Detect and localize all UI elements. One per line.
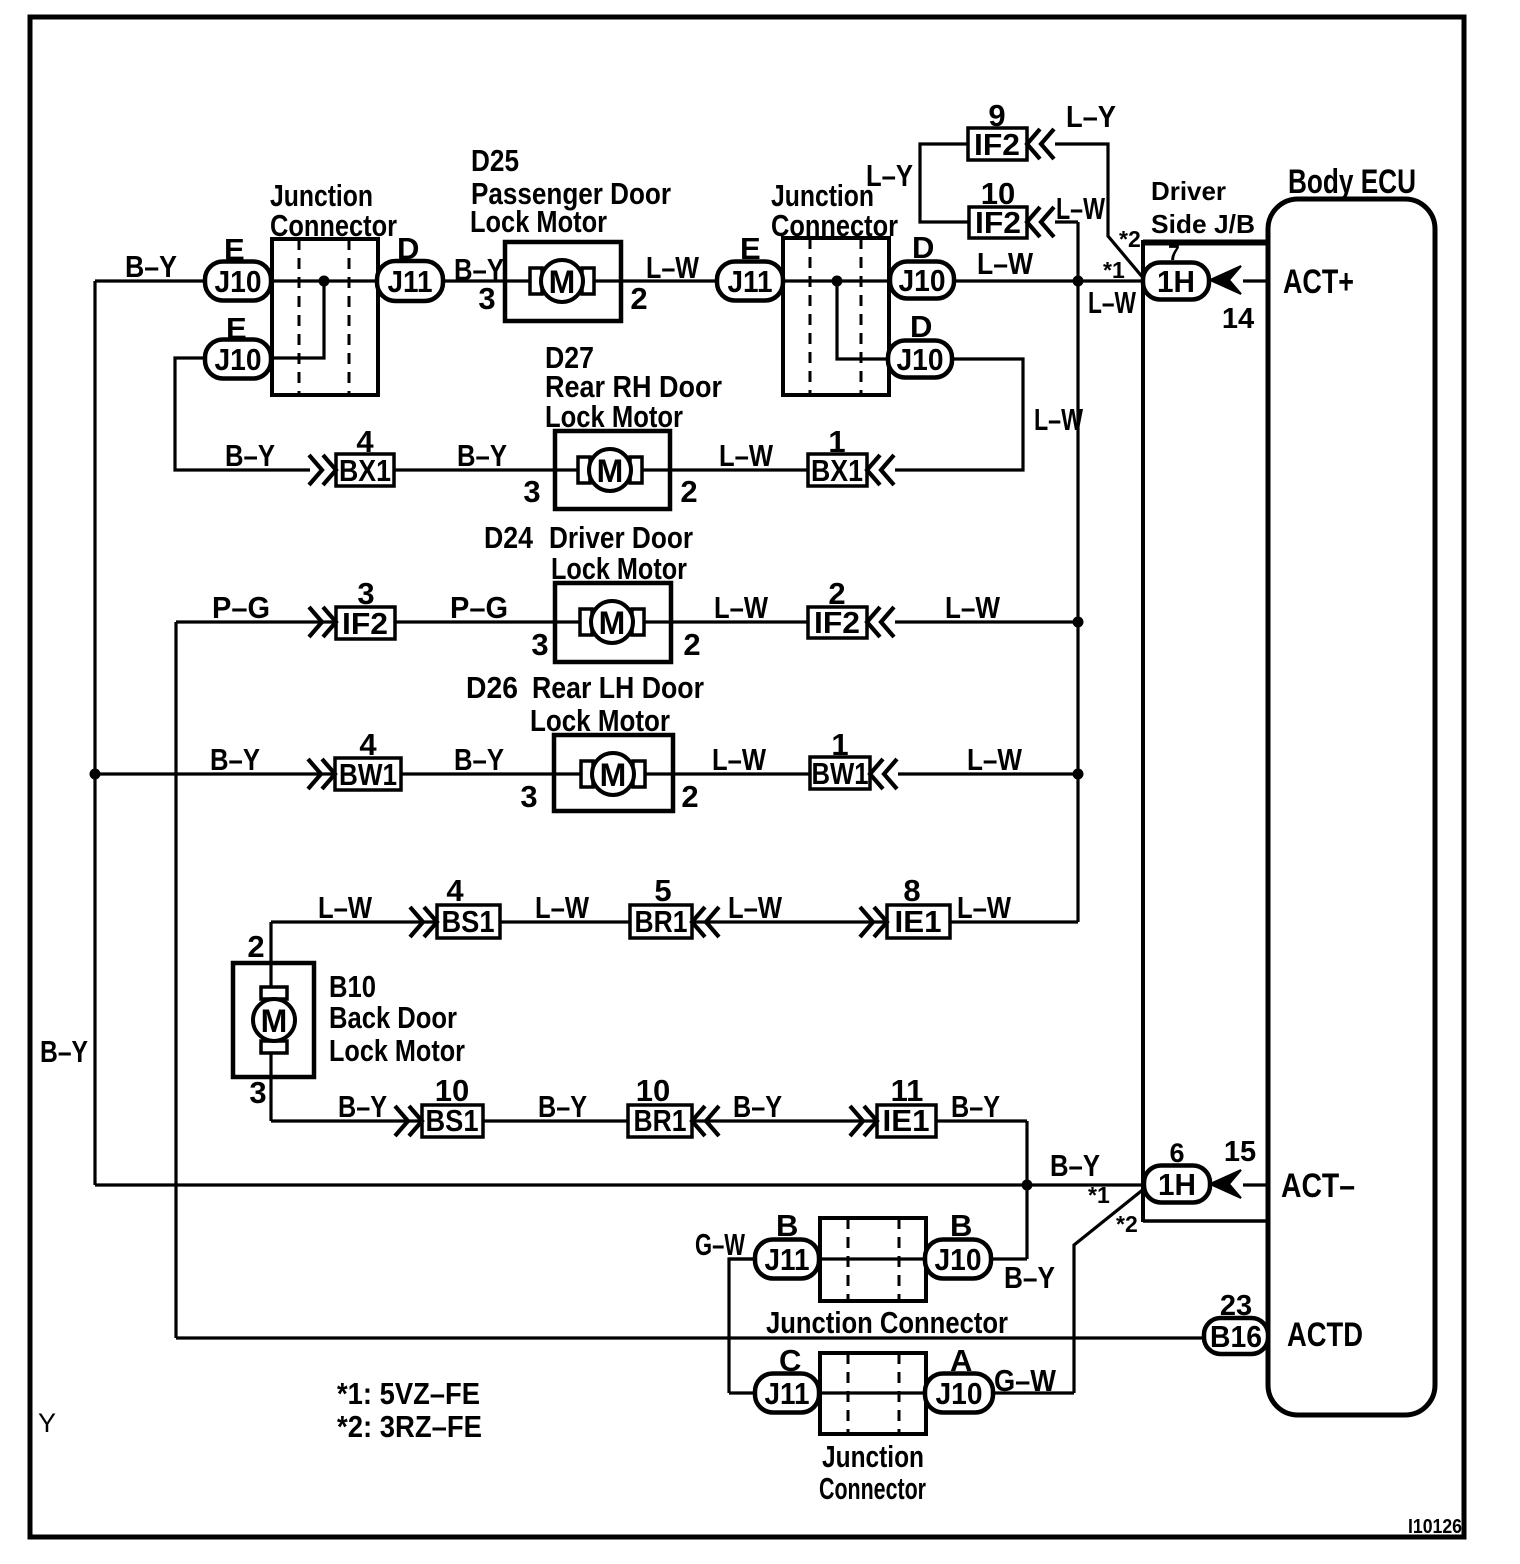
oval J11 pin B (755, 1240, 819, 1279)
wire L-W from IF2 pin2 to bus (895, 620, 1078, 623)
wire P-G row (driver door motor) (176, 620, 867, 623)
svg-text:L–W: L–W (945, 590, 1001, 625)
arrows into BS1 pin10 (395, 1106, 422, 1136)
Driver Side J/B box (1143, 242, 1267, 1222)
arrows into BX1 pin1 (867, 455, 894, 485)
wire B-Y row BW1 (rear LH door motor) (95, 772, 870, 775)
svg-text:B–Y: B–Y (457, 438, 507, 473)
oval J10 pin B (925, 1240, 991, 1279)
wire junction connector 1 internal tap to J10 E lower (273, 281, 324, 358)
oval 1H pin 7 (ACT+) (1143, 263, 1209, 300)
wire junction connector 2 internal tap to J10 D lower (837, 281, 888, 359)
oval J10 pin A (925, 1374, 993, 1413)
svg-text:ACT–: ACT– (1281, 1167, 1355, 1205)
svg-text:I10126: I10126 (1408, 1516, 1462, 1538)
wire ACTD row (176, 1336, 1206, 1339)
oval 1H pin 6 (ACT-) (1144, 1166, 1210, 1203)
wire B-Y long bottom line to ACT- (95, 1183, 1146, 1186)
svg-text:1: 1 (831, 727, 848, 762)
svg-text:B–Y: B–Y (951, 1089, 1000, 1124)
wire J10 E lower to BX1 pin 4 (175, 358, 310, 470)
connector BX1 pin 4 (336, 453, 394, 488)
svg-text:B–Y: B–Y (454, 742, 504, 777)
oval J10 pin D lower (888, 341, 952, 378)
svg-text:5: 5 (654, 873, 671, 908)
svg-text:Driver: Driver (1151, 176, 1226, 206)
motor D27 rear RH door lock motor (555, 431, 670, 509)
svg-text:D: D (910, 309, 932, 344)
svg-text:J10: J10 (215, 264, 262, 299)
svg-text:L–W: L–W (728, 890, 783, 925)
svg-text:Connector: Connector (771, 208, 898, 243)
svg-text:11: 11 (891, 1073, 924, 1108)
svg-text:M: M (261, 1003, 288, 1039)
svg-text:J10: J10 (215, 342, 262, 377)
svg-text:L–W: L–W (967, 742, 1023, 777)
oval J11 pin E row1 right (717, 262, 783, 301)
connector IF2 pin 3 (336, 606, 395, 641)
svg-text:*1: *1 (1088, 1182, 1110, 1208)
oval J11 pin D row1 (377, 261, 443, 301)
arrows into BR1 pin5 (692, 907, 719, 937)
svg-text:ACTD: ACTD (1287, 1316, 1363, 1354)
svg-text:B–Y: B–Y (225, 438, 275, 473)
svg-text:Back Door: Back Door (329, 1000, 457, 1035)
svg-text:3: 3 (523, 474, 540, 509)
svg-text:3: 3 (249, 1075, 266, 1110)
wire B-Y left vertical bus (93, 281, 96, 1185)
wire L-W from IF2 pin10 to bus top (1055, 220, 1078, 223)
svg-text:L–W: L–W (1088, 285, 1137, 320)
svg-text:G–W: G–W (695, 1227, 746, 1262)
arrows into BS1 pin4 (410, 907, 437, 937)
connector BS1 pin 10 (422, 1103, 483, 1138)
oval J10 pin E lower (205, 340, 271, 379)
connector BR1 pin 10 (628, 1103, 692, 1138)
svg-text:L–W: L–W (977, 246, 1034, 281)
wire G-W to 1H pin6 (*2 diagonal) (1074, 1188, 1145, 1393)
connector IE1 pin 8 (887, 904, 950, 939)
svg-text:B–Y: B–Y (338, 1089, 387, 1124)
wire L-W vertical bus (1076, 222, 1079, 922)
svg-text:*2: *2 (1116, 1211, 1138, 1237)
svg-text:P–G: P–G (450, 590, 508, 625)
svg-text:M: M (597, 453, 624, 489)
motor D26 rear LH door lock motor (554, 735, 673, 811)
svg-text:M: M (549, 264, 576, 300)
wire B-Y from IE1 pin11 down to junction connector B (1025, 1121, 1028, 1259)
junction connector C (820, 1353, 926, 1434)
wire ACT- arrow tail (1243, 1183, 1268, 1186)
svg-text:D25: D25 (471, 143, 519, 178)
svg-text:D: D (397, 231, 419, 266)
wire B-Y row BS1/BR1/IE1 (back door motor pin3) (271, 1119, 1027, 1122)
svg-text:7: 7 (1168, 242, 1180, 265)
arrows into BR1 pin10 (692, 1106, 719, 1136)
svg-text:*1: 5VZ–FE: *1: 5VZ–FE (337, 1376, 480, 1411)
svg-text:2: 2 (681, 779, 698, 814)
arrow ACT+ into 1H pin7 (1210, 266, 1241, 294)
connector IE1 pin 11 (877, 1103, 936, 1138)
svg-text:*2: 3RZ–FE: *2: 3RZ–FE (337, 1409, 482, 1444)
svg-text:2: 2 (680, 474, 697, 509)
svg-text:L–W: L–W (1056, 191, 1106, 226)
svg-text:Lock Motor: Lock Motor (545, 399, 683, 434)
svg-text:B10: B10 (329, 969, 376, 1004)
node L-W bus at IF2 row (1073, 617, 1084, 628)
node B-Y bus at BW1 row (90, 769, 101, 780)
svg-text:B–Y: B–Y (733, 1089, 782, 1124)
arrows into IF2 pin10 (1027, 207, 1054, 237)
svg-text:4: 4 (356, 424, 374, 459)
svg-text:IE1: IE1 (883, 1103, 930, 1138)
svg-text:J10: J10 (897, 342, 944, 377)
svg-text:BW1: BW1 (339, 757, 397, 792)
svg-text:B: B (950, 1208, 972, 1243)
svg-text:J11: J11 (728, 264, 773, 299)
svg-text:L–W: L–W (535, 890, 590, 925)
junction connector 2 (783, 238, 889, 395)
svg-text:C: C (779, 1343, 801, 1378)
svg-text:Lock Motor: Lock Motor (551, 551, 687, 586)
wire BX1 row B-Y / L-W (rear RH door motor) (394, 468, 867, 471)
node junction connector 2 tap (832, 276, 843, 287)
Body ECU U1 (1268, 199, 1435, 1415)
wire L-W from BW1 pin1 to bus (898, 772, 1078, 775)
svg-text:Side J/B: Side J/B (1151, 209, 1255, 239)
svg-text:J11: J11 (765, 1376, 810, 1411)
arrows into BX1 pin4 (309, 455, 336, 485)
svg-text:P–G: P–G (212, 590, 270, 625)
svg-text:Lock Motor: Lock Motor (329, 1033, 465, 1068)
svg-text:4: 4 (359, 727, 377, 762)
svg-text:4: 4 (446, 873, 464, 908)
wire G-W loop J11 B to J11 C (729, 1259, 755, 1393)
svg-text:14: 14 (1222, 303, 1254, 335)
svg-text:Lock Motor: Lock Motor (470, 204, 607, 239)
svg-text:1: 1 (828, 424, 845, 459)
svg-text:BS1: BS1 (426, 1103, 479, 1138)
svg-text:15: 15 (1224, 1136, 1256, 1168)
svg-text:6: 6 (1169, 1138, 1184, 1168)
wire junction connector C row (G-W) (729, 1391, 1074, 1394)
svg-text:2: 2 (247, 929, 264, 964)
connector BS1 pin 4 (437, 904, 500, 939)
svg-text:E: E (224, 232, 245, 267)
svg-text:L–W: L–W (712, 742, 767, 777)
connector IF2 pin 2 (808, 605, 867, 640)
svg-text:J10: J10 (936, 1376, 983, 1411)
svg-text:1H: 1H (1157, 264, 1195, 299)
wire ACT+ arrow tail (1243, 279, 1268, 282)
wire L-Y from IF2 pin9 to 1H pin7 (*2 diagonal) (1055, 144, 1144, 279)
svg-text:J10: J10 (899, 263, 946, 298)
svg-text:Junction Connector: Junction Connector (766, 1305, 1008, 1340)
svg-text:B–Y: B–Y (125, 249, 177, 284)
svg-text:10: 10 (981, 176, 1015, 211)
svg-text:L–W: L–W (714, 590, 769, 625)
connector BW1 pin 1 (810, 756, 870, 791)
wire L-W row BS1/BR1/IE1 (back door motor pin2) (271, 920, 1078, 923)
svg-text:10: 10 (435, 1073, 469, 1108)
arrows into BW1 pin1 (870, 759, 897, 789)
svg-text:B16: B16 (1210, 1319, 1262, 1354)
svg-text:Rear LH Door: Rear LH Door (532, 670, 704, 705)
motor D24 driver door lock motor (555, 583, 671, 662)
svg-text:BS1: BS1 (442, 904, 495, 939)
svg-text:D: D (912, 230, 934, 265)
svg-text:*1: *1 (1103, 257, 1125, 283)
svg-text:J11: J11 (388, 264, 433, 299)
svg-text:3: 3 (357, 576, 374, 611)
svg-text:B–Y: B–Y (210, 742, 260, 777)
node B-Y line at junction connector B riser (1022, 1180, 1033, 1191)
svg-text:Connector: Connector (819, 1471, 926, 1506)
svg-text:8: 8 (903, 873, 920, 908)
svg-text:D24: D24 (484, 520, 534, 555)
wire P-G vertical from ACTD line (174, 622, 177, 1338)
svg-text:23: 23 (1220, 1290, 1252, 1322)
svg-text:E: E (226, 311, 247, 346)
svg-text:*2: *2 (1119, 226, 1141, 252)
oval B16 pin 23 (ACTD) (1204, 1318, 1268, 1354)
arrows into IE1 pin8 (860, 907, 887, 937)
wire B-Y / L-W main row 1 (ACT+) (95, 279, 1145, 282)
svg-text:A: A (950, 1343, 972, 1378)
svg-text:3: 3 (478, 281, 495, 316)
oval J11 pin C (755, 1374, 819, 1413)
svg-text:L–W: L–W (719, 438, 774, 473)
svg-text:J10: J10 (935, 1242, 982, 1277)
svg-text:IF2: IF2 (342, 606, 388, 641)
svg-text:Body ECU: Body ECU (1288, 163, 1416, 201)
arrows into IF2 pin9 (1027, 129, 1054, 159)
oval J10 pin D row1 (890, 262, 954, 299)
svg-text:B–Y: B–Y (1004, 1260, 1055, 1295)
arrows into IE1 pin11 (850, 1106, 877, 1136)
svg-text:10: 10 (636, 1073, 670, 1108)
connector BR1 pin 5 (630, 904, 692, 939)
connector BX1 pin 1 (808, 453, 867, 488)
svg-text:B: B (776, 1208, 798, 1243)
svg-text:Junction: Junction (822, 1439, 924, 1474)
svg-text:ACT+: ACT+ (1283, 263, 1354, 301)
svg-text:G–W: G–W (994, 1363, 1057, 1398)
svg-text:2: 2 (828, 576, 845, 611)
wire IF2 pin9 to IF2 pin10 left loop (L-Y) (920, 144, 969, 222)
arrows into BW1 pin4 (308, 759, 335, 789)
svg-text:Driver Door: Driver Door (549, 520, 693, 555)
svg-text:M: M (599, 605, 626, 641)
wire junction connector B row (729, 1257, 1027, 1260)
svg-text:L–W: L–W (318, 890, 373, 925)
node junction connector 1 tap (319, 276, 330, 287)
svg-text:L–Y: L–Y (1066, 99, 1116, 134)
svg-text:B–Y: B–Y (538, 1089, 587, 1124)
connector IF2 pin 9 (968, 127, 1027, 162)
svg-text:L–W: L–W (646, 250, 700, 285)
svg-text:Lock Motor: Lock Motor (530, 703, 670, 738)
junction connector 1 (272, 239, 378, 395)
svg-text:IE1: IE1 (895, 904, 942, 939)
svg-text:Connector: Connector (270, 208, 397, 243)
svg-text:Y: Y (38, 1408, 56, 1438)
svg-text:1H: 1H (1158, 1167, 1196, 1202)
junction connector B (820, 1218, 926, 1301)
arrows into IF2 pin2 (867, 607, 894, 637)
svg-text:L–W: L–W (957, 890, 1012, 925)
svg-text:L–W: L–W (1034, 402, 1084, 437)
svg-text:9: 9 (988, 98, 1005, 133)
wire BX1 pin1 to J10 D lower (895, 359, 1023, 470)
wire back door motor vertical pin2/pin3 (269, 922, 272, 1121)
node L-W bus at BW1 row (1073, 769, 1084, 780)
svg-text:B–Y: B–Y (1050, 1148, 1100, 1183)
connector IF2 pin 10 (969, 205, 1027, 240)
arrows into IF2 pin3 (309, 607, 336, 637)
svg-text:2: 2 (683, 627, 700, 662)
svg-text:3: 3 (520, 779, 537, 814)
motor B10 back door lock motor (233, 963, 314, 1077)
node L-W bus at row 1 (1073, 276, 1084, 287)
svg-text:2: 2 (630, 281, 647, 316)
connector BW1 pin 4 (335, 757, 401, 792)
oval J10 pin E row1 (205, 262, 271, 301)
svg-text:J11: J11 (765, 1242, 810, 1277)
svg-text:L–Y: L–Y (866, 158, 913, 193)
svg-text:D26: D26 (466, 670, 518, 705)
svg-text:M: M (600, 757, 627, 793)
motor D25 passenger door lock motor (505, 242, 621, 321)
svg-text:BR1: BR1 (635, 904, 688, 939)
svg-text:BR1: BR1 (634, 1103, 687, 1138)
svg-text:E: E (740, 231, 761, 266)
arrow ACT- into 1H pin6 (1210, 1170, 1241, 1198)
svg-text:3: 3 (531, 627, 548, 662)
svg-text:B–Y: B–Y (40, 1034, 88, 1069)
ARROWS (308, 129, 1054, 1136)
